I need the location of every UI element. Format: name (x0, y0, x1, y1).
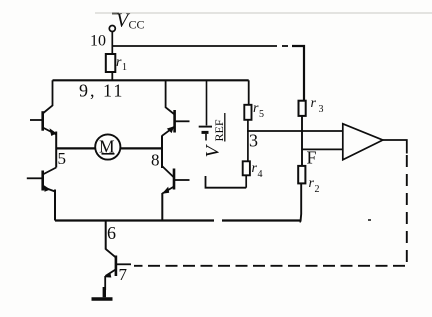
ground (103, 287, 106, 297)
svg-text:CC: CC (129, 18, 145, 32)
resistor r5 (244, 105, 251, 120)
Q4 emitter wire (161, 193, 163, 221)
svg-text:4: 4 (258, 169, 263, 180)
svg-text:5: 5 (259, 109, 264, 120)
resistor r1 (106, 54, 116, 72)
VREF battery minus plate (202, 131, 209, 134)
battery lead stub (205, 134, 207, 141)
svg-text:3: 3 (249, 131, 258, 151)
bus 9,11 (53, 79, 249, 81)
speck (368, 219, 371, 221)
op-amp U1 (343, 124, 383, 160)
transistor Q3 (left bottom) (27, 168, 56, 192)
VREF battery plus plate (199, 126, 212, 128)
svg-text:1: 1 (122, 62, 127, 73)
wire Vcc terminal to r1 (111, 32, 113, 55)
svg-text:5: 5 (58, 149, 67, 168)
wire motor to node8 (120, 147, 162, 149)
wire node3 to r2 (301, 131, 303, 166)
svg-text:r: r (311, 96, 317, 111)
feedback dashed vertical (406, 155, 408, 266)
wire r1 to bus (111, 72, 113, 80)
transistor Q1 (left top) (30, 80, 57, 136)
svg-text:6: 6 (107, 223, 116, 243)
feedback dashed horizontal (134, 265, 405, 267)
bottom bus (55, 219, 214, 221)
wire bus to r5 (248, 80, 250, 105)
wire r4 down (245, 175, 247, 187)
Q5 emitter wire to ground (104, 276, 106, 290)
wire r2 to bottom bus (300, 184, 303, 222)
VREF return wire (206, 176, 247, 188)
svg-text:3: 3 (319, 104, 324, 115)
Vcc terminal (109, 26, 115, 32)
wire r5 to r4 (247, 120, 249, 162)
transistor Q5 (sink) (105, 249, 131, 278)
node F line (302, 148, 343, 150)
svg-text:2: 2 (315, 184, 320, 195)
VREF label (203, 113, 227, 158)
transistor Q4 (right bottom) (162, 166, 190, 194)
svg-text:7: 7 (119, 265, 128, 284)
resistor r4 (243, 161, 250, 175)
wire Vcc branch to r3 (112, 45, 277, 47)
node 3 line (247, 130, 343, 132)
svg-text:8: 8 (151, 151, 160, 170)
svg-text:10: 10 (90, 33, 106, 50)
wire node5 to motor (56, 147, 95, 149)
VREF branch wire (206, 80, 208, 125)
resistor r2 (298, 166, 305, 184)
node 6 tap (105, 221, 107, 250)
node 8 junction (161, 136, 163, 169)
transistor Q2 (right top) (162, 80, 190, 136)
resistor r3 (299, 101, 306, 116)
scan rule artifact (95, 12, 432, 14)
svg-text:9, 11: 9, 11 (79, 81, 124, 101)
node 5 junction (55, 132, 57, 168)
svg-text:REF: REF (212, 119, 226, 141)
Q3 emitter wire (54, 190, 56, 221)
op-amp output wire (383, 140, 407, 154)
motor M (95, 134, 120, 159)
svg-text:F: F (307, 148, 317, 168)
wire r3 to node3 (301, 116, 303, 131)
svg-text:V: V (203, 144, 224, 158)
